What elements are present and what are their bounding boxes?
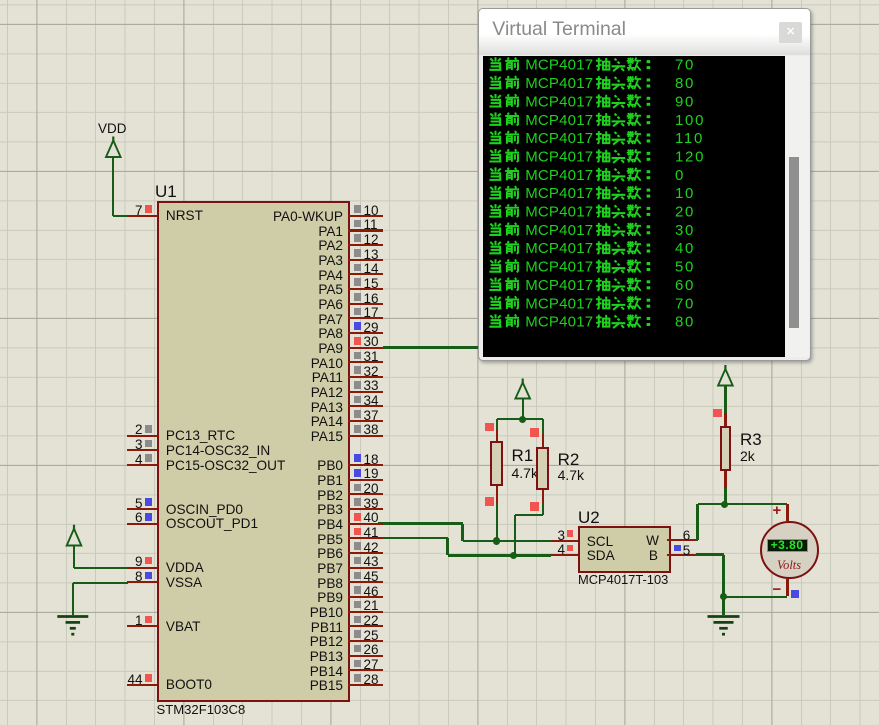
svg-text:70: 70 [675, 295, 695, 312]
svg-text:MCP4017: MCP4017 [525, 204, 593, 221]
svg-text:MCP4017: MCP4017 [525, 149, 593, 166]
svg-text:MCP4017: MCP4017 [525, 167, 593, 184]
svg-text:20: 20 [675, 204, 695, 221]
svg-text:MCP4017: MCP4017 [525, 57, 593, 74]
svg-text:MCP4017: MCP4017 [525, 277, 593, 294]
svg-text:MCP4017: MCP4017 [525, 112, 593, 129]
svg-text:MCP4017: MCP4017 [525, 185, 593, 202]
svg-text:80: 80 [675, 314, 695, 331]
svg-text:80: 80 [675, 75, 695, 92]
svg-text:MCP4017: MCP4017 [525, 130, 593, 147]
svg-text:MCP4017: MCP4017 [525, 75, 593, 92]
svg-text:70: 70 [675, 57, 695, 74]
svg-text:50: 50 [675, 259, 695, 276]
svg-text:110: 110 [675, 130, 704, 147]
svg-text:120: 120 [675, 149, 705, 166]
svg-text:MCP4017: MCP4017 [525, 314, 593, 331]
svg-text:90: 90 [675, 93, 695, 110]
svg-text:0: 0 [675, 167, 685, 184]
svg-text:40: 40 [675, 240, 695, 257]
svg-text:MCP4017: MCP4017 [525, 259, 593, 276]
svg-text:MCP4017: MCP4017 [525, 295, 593, 312]
svg-text:100: 100 [675, 112, 705, 129]
svg-text:MCP4017: MCP4017 [525, 222, 593, 239]
svg-text:30: 30 [675, 222, 695, 239]
svg-text:MCP4017: MCP4017 [525, 93, 593, 110]
svg-text:MCP4017: MCP4017 [525, 240, 593, 257]
svg-text:10: 10 [675, 185, 695, 202]
svg-text:60: 60 [675, 277, 695, 294]
